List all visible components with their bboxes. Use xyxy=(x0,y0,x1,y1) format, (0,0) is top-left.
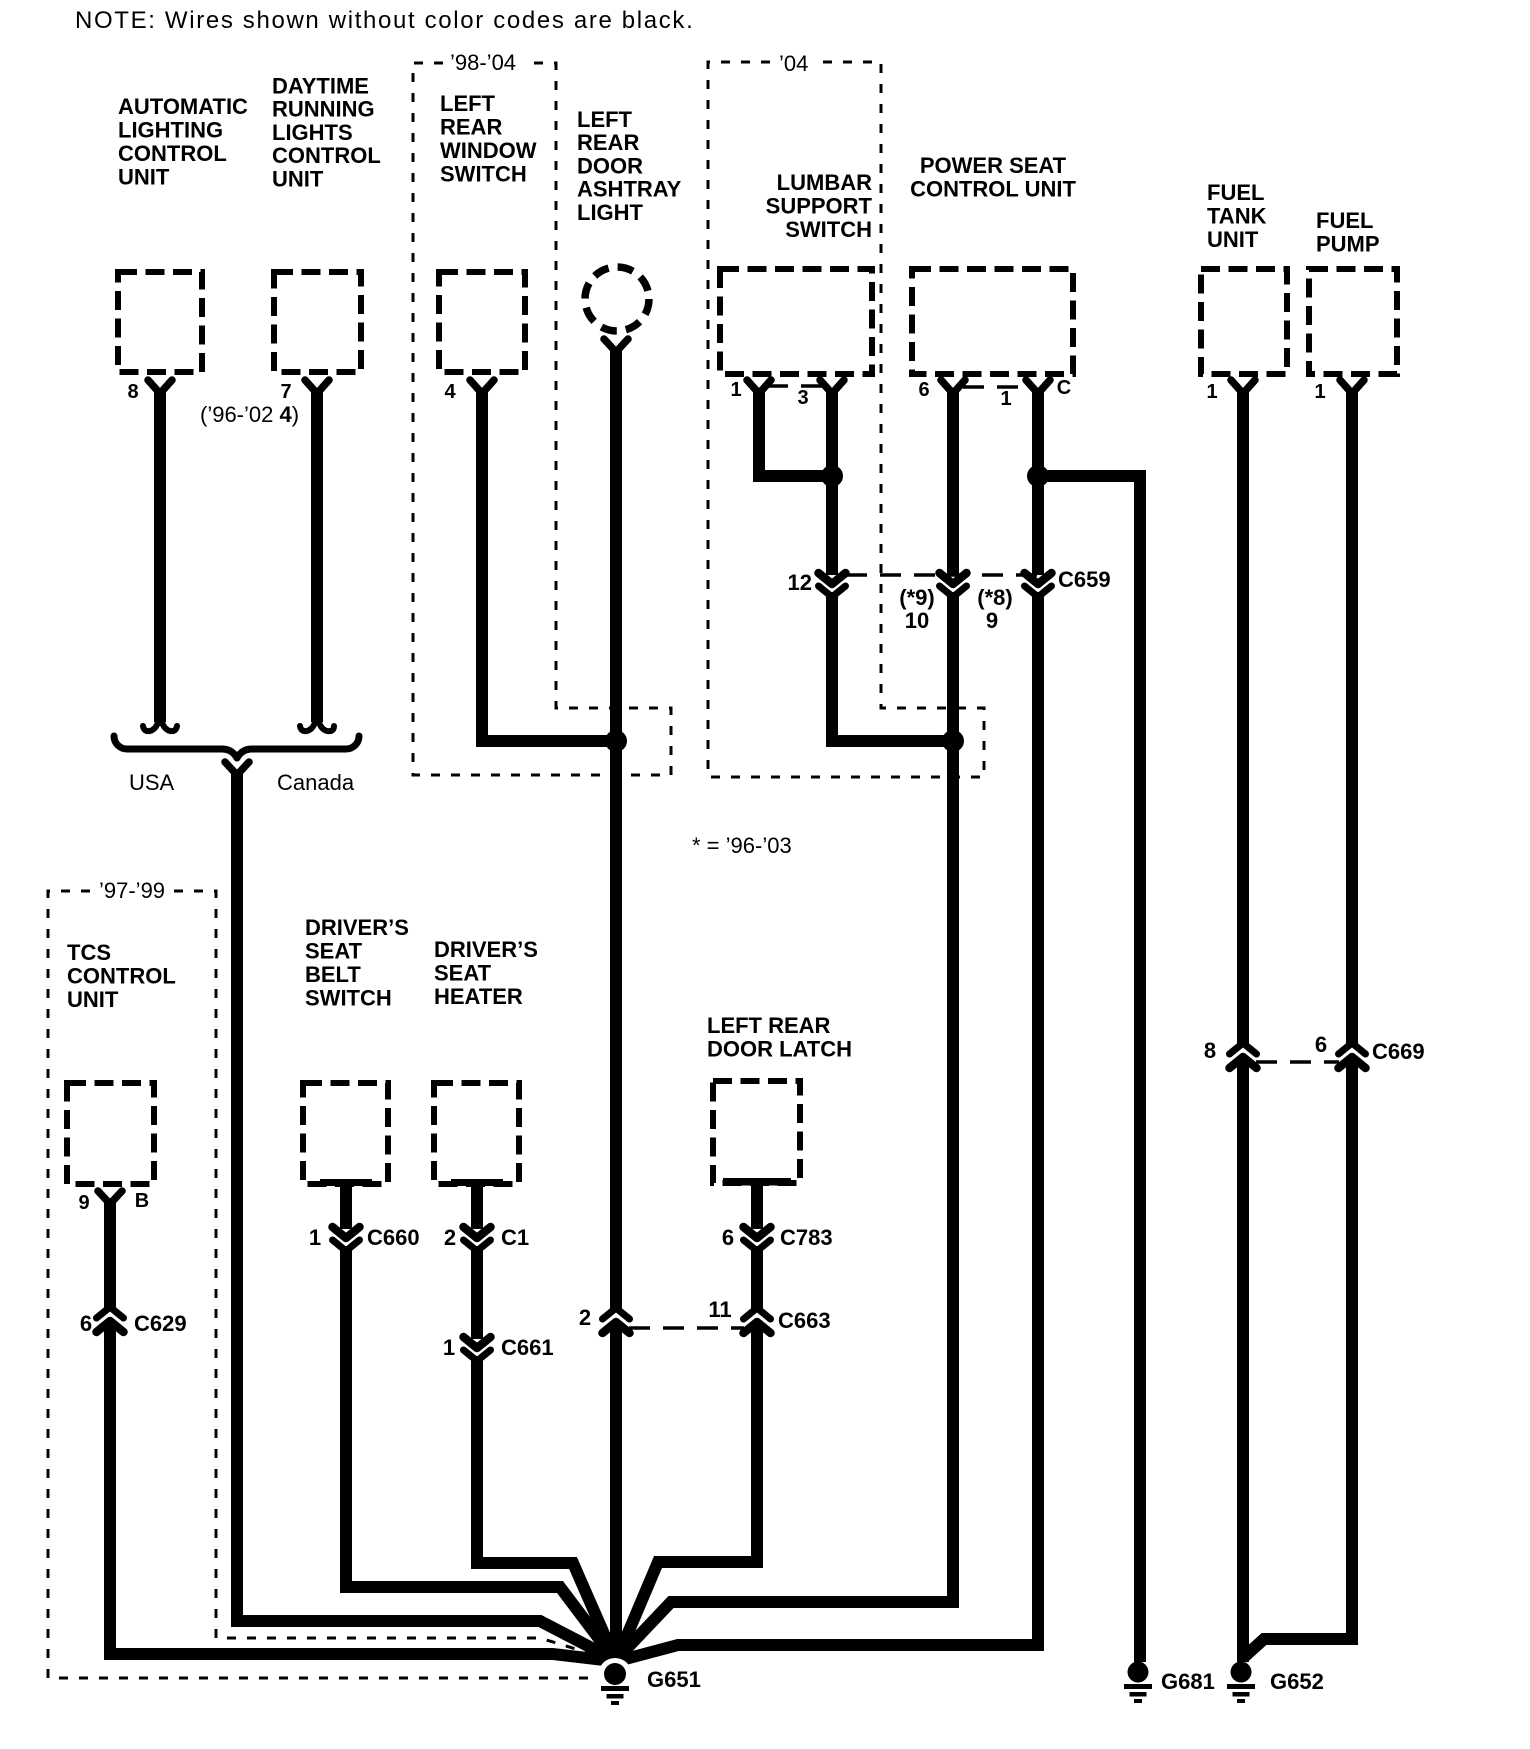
svg-text:G652: G652 xyxy=(1270,1669,1324,1694)
svg-text:C1: C1 xyxy=(501,1225,529,1250)
svg-text:(*9): (*9) xyxy=(899,585,934,610)
svg-text:1: 1 xyxy=(443,1335,455,1360)
svg-text:SWITCH: SWITCH xyxy=(440,162,527,187)
svg-text:B: B xyxy=(135,1190,149,1212)
svg-text:TCS: TCS xyxy=(67,940,111,965)
svg-text:UNIT: UNIT xyxy=(1207,227,1259,252)
svg-text:’04: ’04 xyxy=(779,51,808,76)
svg-text:BELT: BELT xyxy=(305,962,361,987)
svg-text:DRIVER’S: DRIVER’S xyxy=(305,915,409,940)
svg-text:SUPPORT: SUPPORT xyxy=(766,194,873,219)
svg-text:DRIVER’S: DRIVER’S xyxy=(434,937,538,962)
svg-text:(*8): (*8) xyxy=(977,585,1012,610)
svg-text:LEFT REAR: LEFT REAR xyxy=(707,1013,831,1038)
svg-text:TANK: TANK xyxy=(1207,204,1267,229)
svg-text:12: 12 xyxy=(788,570,812,595)
svg-text:REAR: REAR xyxy=(440,115,502,140)
svg-text:UNIT: UNIT xyxy=(272,167,324,192)
svg-text:DAYTIME: DAYTIME xyxy=(272,74,369,99)
svg-text:POWER SEAT: POWER SEAT xyxy=(920,153,1067,178)
svg-text:3: 3 xyxy=(797,387,808,409)
svg-text:CONTROL: CONTROL xyxy=(118,141,227,166)
svg-text:UNIT: UNIT xyxy=(118,165,170,190)
svg-text:LUMBAR: LUMBAR xyxy=(777,170,872,195)
svg-text:C660: C660 xyxy=(367,1225,420,1250)
svg-text:WINDOW: WINDOW xyxy=(440,138,537,163)
svg-text:SEAT: SEAT xyxy=(434,961,492,986)
svg-text:UNIT: UNIT xyxy=(67,987,119,1012)
svg-text:6: 6 xyxy=(722,1225,734,1250)
svg-text:1: 1 xyxy=(1206,381,1217,403)
svg-text:CONTROL: CONTROL xyxy=(272,143,381,168)
svg-text:6: 6 xyxy=(1315,1032,1327,1057)
svg-text:C783: C783 xyxy=(780,1225,833,1250)
svg-text:C663: C663 xyxy=(778,1308,831,1333)
svg-text:4: 4 xyxy=(444,381,456,403)
svg-text:9: 9 xyxy=(986,608,998,633)
svg-text:SWITCH: SWITCH xyxy=(785,217,872,242)
svg-text:LIGHTING: LIGHTING xyxy=(118,118,223,143)
svg-text:C659: C659 xyxy=(1058,567,1111,592)
svg-text:C: C xyxy=(1057,377,1071,399)
svg-text:1: 1 xyxy=(1000,388,1011,410)
svg-text:SWITCH: SWITCH xyxy=(305,986,392,1011)
svg-text:6: 6 xyxy=(80,1311,92,1336)
svg-text:RUNNING: RUNNING xyxy=(272,97,375,122)
svg-text:DOOR: DOOR xyxy=(577,154,643,179)
svg-text:REAR: REAR xyxy=(577,130,639,155)
svg-text:PUMP: PUMP xyxy=(1316,232,1380,257)
svg-text:LIGHTS: LIGHTS xyxy=(272,120,353,145)
svg-text:2: 2 xyxy=(579,1305,591,1330)
svg-text:C661: C661 xyxy=(501,1335,554,1360)
svg-text:CONTROL: CONTROL xyxy=(67,964,176,989)
svg-text:LEFT: LEFT xyxy=(577,107,633,132)
svg-text:’97-’99: ’97-’99 xyxy=(99,878,165,903)
svg-text:7: 7 xyxy=(280,381,291,403)
svg-text:10: 10 xyxy=(905,608,929,633)
svg-text:ASHTRAY: ASHTRAY xyxy=(577,177,682,202)
svg-text:1: 1 xyxy=(730,379,741,401)
svg-text:11: 11 xyxy=(708,1297,731,1322)
svg-text:* = ’96-’03: * = ’96-’03 xyxy=(692,833,792,858)
svg-text:2: 2 xyxy=(444,1225,456,1250)
svg-text:DOOR LATCH: DOOR LATCH xyxy=(707,1037,852,1062)
svg-text:NOTE: Wires shown without colo: NOTE: Wires shown without color codes ar… xyxy=(75,7,694,34)
svg-text:FUEL: FUEL xyxy=(1207,180,1264,205)
svg-text:1: 1 xyxy=(309,1225,321,1250)
svg-text:C669: C669 xyxy=(1372,1039,1425,1064)
svg-text:(’96-’02 4): (’96-’02 4) xyxy=(200,402,299,427)
svg-text:CONTROL UNIT: CONTROL UNIT xyxy=(910,177,1076,202)
svg-text:LEFT: LEFT xyxy=(440,91,496,116)
svg-text:1: 1 xyxy=(1314,381,1325,403)
svg-text:C629: C629 xyxy=(134,1311,187,1336)
svg-text:USA: USA xyxy=(129,770,175,795)
svg-text:AUTOMATIC: AUTOMATIC xyxy=(118,94,248,119)
svg-text:8: 8 xyxy=(127,381,138,403)
svg-text:FUEL: FUEL xyxy=(1316,208,1373,233)
svg-text:8: 8 xyxy=(1204,1038,1216,1063)
svg-text:’98-’04: ’98-’04 xyxy=(450,50,516,75)
svg-text:LIGHT: LIGHT xyxy=(577,200,644,225)
svg-text:G651: G651 xyxy=(647,1667,701,1692)
svg-text:HEATER: HEATER xyxy=(434,984,523,1009)
svg-text:Canada: Canada xyxy=(277,770,355,795)
svg-text:6: 6 xyxy=(918,379,929,401)
svg-text:G681: G681 xyxy=(1161,1669,1215,1694)
svg-text:9: 9 xyxy=(78,1192,89,1214)
svg-text:SEAT: SEAT xyxy=(305,939,363,964)
